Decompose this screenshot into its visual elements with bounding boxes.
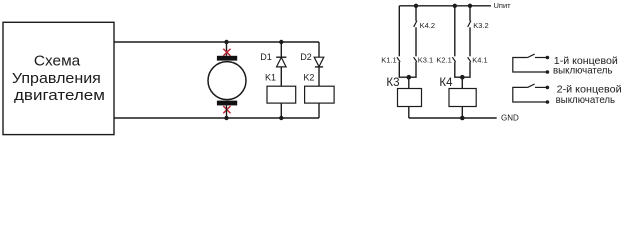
- wire D2 top lead: [318, 42, 320, 57]
- wire branch C upper (Uпит to K2.1): [454, 6, 456, 57]
- svg-text:К3: К3: [386, 77, 399, 89]
- limit switch SQ2 blade: [528, 84, 535, 87]
- svg-text:K1.1: K1.1: [381, 55, 396, 64]
- svg-text:K3.1: K3.1: [418, 55, 433, 64]
- svg-text:двигателем: двигателем: [14, 88, 105, 104]
- svg-text:Uпит: Uпит: [494, 1, 512, 10]
- wire K3 bottom lead to GND rail: [408, 107, 410, 119]
- node junction top rail / motor: [224, 40, 228, 44]
- node junction GND / K4: [460, 116, 465, 121]
- terminal dot SQ2 top: [546, 86, 550, 90]
- wire branch B lower to node 1: [409, 62, 416, 77]
- diode D1 (cathode bar up): [276, 57, 286, 67]
- wire branch B stub (Uпит to K4.2): [415, 6, 417, 21]
- svg-text:Управления: Управления: [12, 71, 101, 87]
- svg-text:Схема: Схема: [34, 54, 81, 70]
- svg-text:GND: GND: [501, 114, 519, 123]
- svg-text:K2.1: K2.1: [436, 55, 451, 64]
- relay coil K1: [267, 86, 296, 103]
- motor M1 body: [208, 62, 246, 100]
- wire top rail from box to D2 branch: [114, 41, 319, 43]
- wire GND rail: [409, 117, 497, 119]
- wire branch D stub (Uпит to K3.2): [469, 6, 471, 21]
- contact K4.1 blade: [468, 57, 471, 62]
- terminal dot SQ1 bottom: [546, 70, 550, 74]
- label 1-й концевой выключатель: [553, 56, 618, 77]
- node 2 junction (K4 feed): [460, 75, 465, 80]
- wire motor bottom lead: [226, 105, 228, 118]
- wire branch C lower to node 2: [455, 62, 463, 77]
- label 2-й концевой выключатель: [556, 85, 622, 106]
- node junction Uпит / K2.1 branch: [453, 4, 457, 8]
- wire bottom rail from box to K2 branch: [114, 117, 319, 119]
- svg-text:D2: D2: [300, 52, 312, 62]
- wire K1 bottom lead: [280, 103, 282, 118]
- node junction Uпит / K3.2 branch: [468, 4, 472, 8]
- limit switch SQ1 blade: [528, 54, 535, 57]
- limit switch SQ1 frame: [513, 58, 548, 73]
- node junction Uпит / K4.2 branch: [414, 4, 418, 8]
- svg-text:K4.2: K4.2: [420, 21, 435, 30]
- wire Uпит power rail: [399, 5, 491, 7]
- svg-text:K3.2: K3.2: [473, 21, 488, 30]
- svg-text:K4.1: K4.1: [472, 55, 487, 64]
- control box U1 (Схема Управления двигателем): [3, 22, 114, 134]
- wire branch D middle (K3.2 to K4.1): [469, 27, 471, 56]
- no-connect marker (red X) motor bottom: [223, 106, 230, 113]
- wire branch A lower to node 1: [399, 62, 409, 77]
- motor M1 brush bottom: [217, 101, 237, 106]
- node 1 junction (K3 feed): [407, 75, 412, 80]
- svg-text:выключатель: выключатель: [556, 95, 616, 106]
- node junction bottom rail / motor: [224, 116, 228, 120]
- contact K4.2 blade: [414, 21, 417, 27]
- relay coil K4: [449, 89, 476, 107]
- node junction bottom rail / K1: [279, 116, 283, 120]
- wire SQ1 top terminal: [535, 57, 547, 59]
- wire branch D lower to node 2: [462, 62, 470, 77]
- wire branch B middle (K4.2 to K3.1): [415, 27, 417, 56]
- node junction top rail / D1-K1 branch: [279, 40, 283, 44]
- wire D1 top lead: [280, 42, 282, 57]
- wire K2 bottom lead: [318, 103, 320, 118]
- svg-text:K2: K2: [303, 72, 314, 82]
- limit switch SQ2 frame: [513, 87, 548, 102]
- svg-text:выключатель: выключатель: [553, 66, 613, 77]
- diode D2 (cathode bar down): [314, 57, 324, 67]
- relay coil K3: [398, 89, 422, 107]
- wire D1 to K1 coil: [280, 67, 282, 86]
- svg-text:K1: K1: [265, 72, 276, 82]
- no-connect marker (red X) motor top: [223, 49, 230, 56]
- wire motor top lead: [226, 42, 228, 56]
- wire node 2 to K4 coil: [461, 77, 463, 88]
- terminal dot SQ1 top: [546, 56, 550, 60]
- svg-text:D1: D1: [260, 52, 272, 62]
- wire node 1 to K3 coil: [408, 77, 410, 88]
- wire SQ2 top terminal: [535, 86, 547, 88]
- wire branch A upper (Uпит to K1.1): [398, 6, 400, 57]
- wire D2 to K2 coil: [318, 67, 320, 86]
- relay coil K2: [305, 86, 335, 103]
- svg-text:К4: К4: [439, 77, 453, 89]
- terminal dot SQ2 bottom: [546, 100, 550, 104]
- contact K3.2 blade: [468, 21, 471, 27]
- wire K4 bottom lead to GND rail: [461, 107, 463, 119]
- contact K1.1 blade: [397, 57, 400, 62]
- motor M1 brush top: [217, 56, 237, 61]
- contact K2.1 blade: [452, 57, 455, 62]
- contact K3.1 blade: [414, 57, 417, 62]
